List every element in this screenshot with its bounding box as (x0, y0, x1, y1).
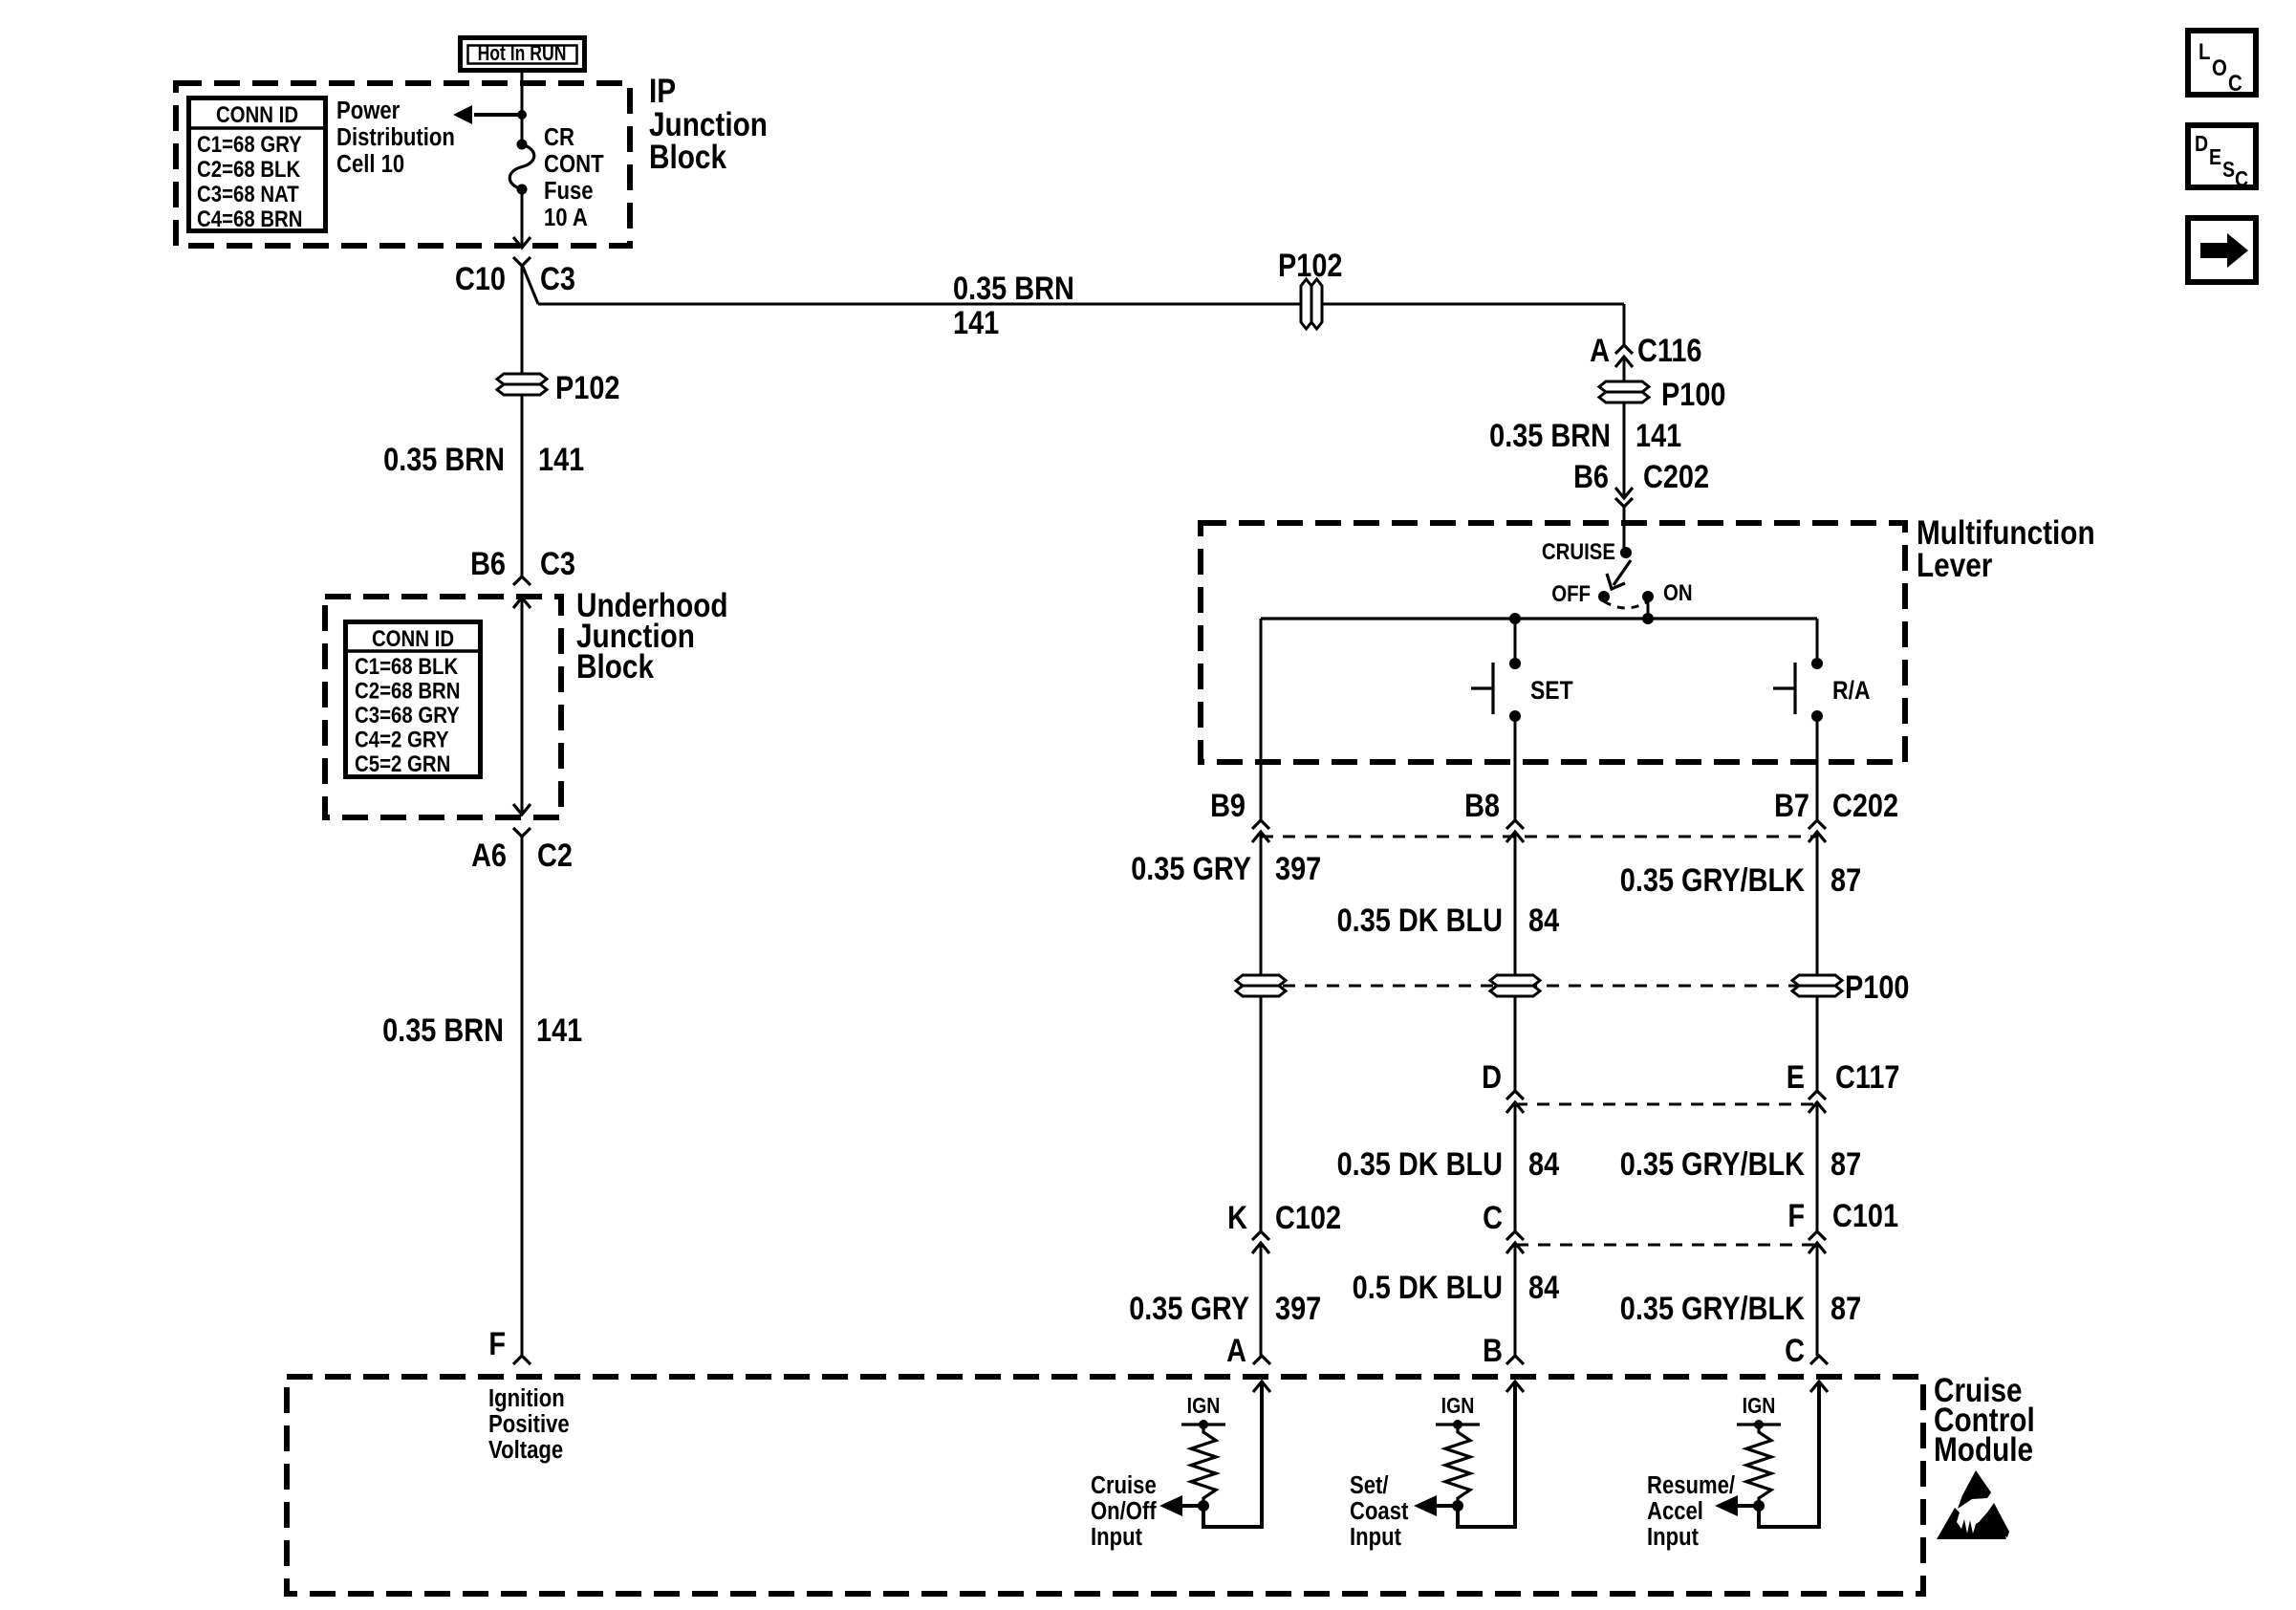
svg-text:Set/: Set/ (1350, 1471, 1389, 1499)
svg-text:IGN: IGN (1441, 1394, 1475, 1419)
svg-text:Coast: Coast (1350, 1497, 1408, 1525)
svg-text:87: 87 (1830, 1290, 1861, 1327)
svg-text:IGN: IGN (1743, 1394, 1776, 1419)
svg-text:CONN ID: CONN ID (372, 625, 454, 651)
svg-text:B9: B9 (1210, 787, 1245, 824)
svg-text:0.35 DK BLU: 0.35 DK BLU (1337, 1145, 1503, 1183)
svg-text:141: 141 (1635, 417, 1681, 454)
svg-text:C3: C3 (540, 260, 575, 297)
svg-text:87: 87 (1830, 1145, 1861, 1183)
svg-text:A: A (1226, 1332, 1246, 1369)
svg-text:Block: Block (576, 648, 655, 685)
svg-text:C1=68 GRY: C1=68 GRY (197, 131, 302, 157)
svg-text:10 A: 10 A (544, 204, 588, 231)
svg-text:O: O (2212, 54, 2227, 80)
svg-text:C: C (2235, 167, 2248, 192)
svg-text:SET: SET (1530, 676, 1573, 705)
svg-text:S: S (2222, 158, 2235, 183)
svg-text:E: E (1787, 1058, 1805, 1096)
svg-text:C116: C116 (1637, 332, 1701, 369)
svg-text:84: 84 (1528, 902, 1560, 939)
svg-text:B6: B6 (1573, 458, 1609, 495)
svg-text:F: F (488, 1325, 506, 1362)
svg-text:R/A: R/A (1832, 676, 1871, 705)
svg-text:Ignition: Ignition (488, 1384, 565, 1412)
svg-text:84: 84 (1528, 1269, 1560, 1306)
svg-text:Distribution: Distribution (336, 123, 455, 151)
svg-text:B7: B7 (1774, 787, 1809, 824)
svg-text:Block: Block (649, 139, 727, 176)
svg-text:CONN ID: CONN ID (216, 101, 298, 127)
svg-text:P102: P102 (555, 369, 619, 406)
svg-text:C2: C2 (537, 837, 573, 874)
svg-text:C202: C202 (1832, 787, 1898, 824)
svg-text:IP: IP (649, 73, 676, 110)
svg-text:Input: Input (1350, 1523, 1401, 1551)
svg-text:C10: C10 (455, 260, 506, 297)
svg-text:On/Off: On/Off (1091, 1497, 1158, 1525)
svg-text:Power: Power (336, 97, 401, 124)
svg-text:C: C (1483, 1199, 1503, 1236)
svg-text:C3=68 GRY: C3=68 GRY (355, 702, 460, 728)
svg-text:Input: Input (1647, 1523, 1699, 1551)
svg-text:0.35 GRY: 0.35 GRY (1131, 850, 1251, 887)
svg-text:0.35 BRN: 0.35 BRN (1489, 417, 1611, 454)
svg-text:0.35 BRN: 0.35 BRN (382, 1012, 504, 1049)
svg-text:Fuse: Fuse (544, 177, 594, 205)
svg-text:84: 84 (1528, 1145, 1560, 1183)
svg-text:CRUISE: CRUISE (1542, 538, 1615, 564)
svg-text:B: B (1483, 1332, 1503, 1369)
svg-text:C3: C3 (540, 545, 575, 582)
svg-text:P100: P100 (1845, 968, 1909, 1006)
svg-text:0.35 BRN: 0.35 BRN (383, 441, 505, 478)
svg-text:Multifunction: Multifunction (1917, 514, 2095, 552)
svg-text:C: C (2228, 70, 2242, 96)
svg-text:0.35 GRY/BLK: 0.35 GRY/BLK (1620, 1145, 1805, 1183)
svg-text:IGN: IGN (1187, 1394, 1221, 1419)
svg-text:D: D (2195, 132, 2208, 157)
svg-text:K: K (1227, 1199, 1247, 1236)
svg-text:87: 87 (1830, 861, 1861, 899)
svg-text:ON: ON (1663, 579, 1693, 605)
svg-text:Input: Input (1091, 1523, 1142, 1551)
svg-text:C117: C117 (1835, 1058, 1899, 1096)
svg-text:C5=2 GRN: C5=2 GRN (355, 751, 450, 776)
svg-text:397: 397 (1275, 850, 1321, 887)
svg-text:0.5 DK BLU: 0.5 DK BLU (1353, 1269, 1503, 1306)
svg-text:0.35 GRY: 0.35 GRY (1129, 1290, 1249, 1327)
svg-text:L: L (2199, 38, 2210, 64)
svg-text:Cruise: Cruise (1091, 1471, 1157, 1499)
svg-text:Junction: Junction (649, 106, 768, 143)
svg-text:397: 397 (1275, 1290, 1321, 1327)
svg-text:CR: CR (544, 123, 574, 151)
svg-text:Voltage: Voltage (488, 1436, 563, 1464)
svg-text:C: C (1785, 1332, 1805, 1369)
svg-text:B8: B8 (1464, 787, 1500, 824)
svg-text:0.35 DK BLU: 0.35 DK BLU (1337, 902, 1503, 939)
svg-text:A: A (1590, 332, 1610, 369)
svg-text:141: 141 (953, 304, 999, 341)
svg-text:0.35 GRY/BLK: 0.35 GRY/BLK (1620, 861, 1805, 899)
svg-text:P102: P102 (1278, 247, 1342, 284)
svg-text:141: 141 (536, 1012, 582, 1049)
svg-text:Resume/: Resume/ (1647, 1471, 1735, 1499)
svg-text:C2=68 BLK: C2=68 BLK (197, 156, 300, 182)
svg-text:Positive: Positive (488, 1410, 570, 1438)
svg-text:B6: B6 (470, 545, 506, 582)
svg-text:C4=2 GRY: C4=2 GRY (355, 727, 449, 752)
svg-text:C2=68 BRN: C2=68 BRN (355, 678, 461, 704)
svg-text:E: E (2209, 145, 2221, 170)
svg-text:C4=68 BRN: C4=68 BRN (197, 206, 303, 231)
svg-text:C101: C101 (1832, 1197, 1898, 1234)
svg-text:C3=68 NAT: C3=68 NAT (197, 181, 299, 207)
svg-text:CONT: CONT (544, 150, 604, 178)
svg-text:P100: P100 (1661, 376, 1725, 413)
svg-text:F: F (1787, 1197, 1805, 1234)
svg-text:C202: C202 (1643, 458, 1709, 495)
svg-text:C1=68 BLK: C1=68 BLK (355, 653, 458, 679)
svg-text:Hot In RUN: Hot In RUN (478, 42, 567, 65)
svg-text:D: D (1482, 1058, 1502, 1096)
svg-text:A6: A6 (471, 837, 507, 874)
svg-text:Cell 10: Cell 10 (336, 150, 404, 178)
svg-text:C102: C102 (1275, 1199, 1341, 1236)
svg-text:0.35 GRY/BLK: 0.35 GRY/BLK (1620, 1290, 1805, 1327)
svg-text:Lever: Lever (1917, 547, 1993, 584)
svg-text:Module: Module (1934, 1431, 2033, 1469)
svg-text:Accel: Accel (1647, 1497, 1703, 1525)
svg-text:141: 141 (538, 441, 584, 478)
svg-text:0.35 BRN: 0.35 BRN (953, 270, 1074, 307)
svg-text:OFF: OFF (1551, 580, 1591, 606)
